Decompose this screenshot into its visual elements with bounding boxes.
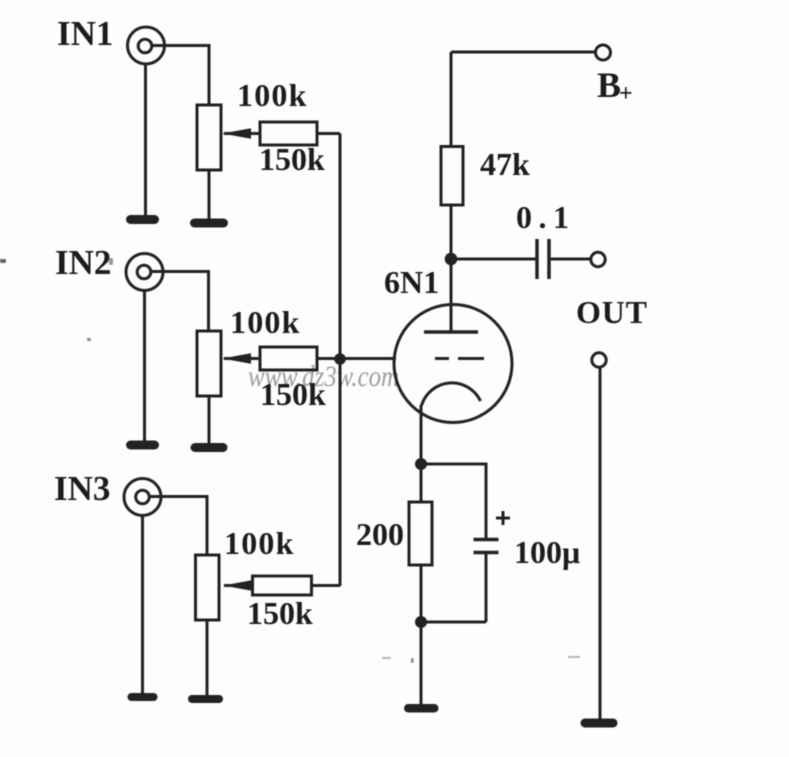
svg-text:150k: 150k — [247, 595, 313, 631]
svg-text:IN2: IN2 — [55, 243, 111, 282]
svg-text:B: B — [597, 65, 621, 105]
svg-text:100k: 100k — [237, 77, 308, 113]
svg-text:100k: 100k — [230, 304, 301, 340]
svg-text:IN3: IN3 — [54, 469, 110, 508]
svg-text:0.1: 0.1 — [516, 199, 576, 235]
svg-text:IN1: IN1 — [57, 14, 113, 53]
svg-text:200: 200 — [356, 516, 404, 552]
svg-text:100k: 100k — [224, 525, 295, 561]
svg-text:47k: 47k — [480, 146, 530, 182]
svg-text:100μ: 100μ — [514, 534, 580, 570]
svg-text:6N1: 6N1 — [384, 264, 439, 300]
svg-text:150k: 150k — [260, 376, 326, 412]
svg-text:OUT: OUT — [576, 294, 648, 330]
svg-text:150k: 150k — [259, 141, 325, 177]
svg-text:+: + — [619, 81, 633, 107]
